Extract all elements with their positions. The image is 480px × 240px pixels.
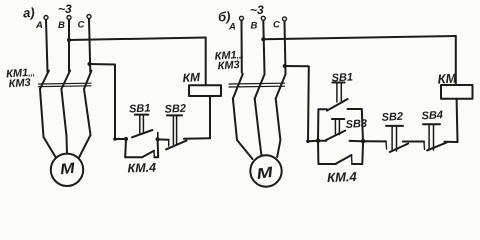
svg-text:КМ: КМ xyxy=(437,70,458,86)
svg-text:SB2: SB2 xyxy=(381,111,403,124)
terminal A (left) xyxy=(44,16,48,20)
terminal B (left) xyxy=(67,16,71,20)
wire phase B vertical (left) xyxy=(68,20,70,72)
terminal C (left) xyxy=(87,15,91,19)
svg-text:М: М xyxy=(256,164,275,183)
pushbutton SB2 (right) xyxy=(386,126,408,152)
wire node2 to SB2 (right) xyxy=(363,140,386,142)
svg-text:SB4: SB4 xyxy=(421,109,443,122)
terminal C (right) xyxy=(283,17,287,21)
contactor contact KM2 phase B (left) xyxy=(61,71,70,154)
junction control left corner (right) xyxy=(306,140,310,144)
wire bottom to node 1 (right) xyxy=(308,140,318,143)
junction control left corner (left) xyxy=(113,137,117,141)
wire phase A vertical (right) xyxy=(241,21,243,73)
contactor contact KM1 phase A (right) xyxy=(233,74,253,159)
pushbutton SB1 (left) xyxy=(132,115,158,139)
svg-text:SB1: SB1 xyxy=(331,71,353,84)
node SB1 right xyxy=(156,137,160,141)
coil KM (left) xyxy=(189,85,221,96)
wire coil KM bottom lead (left) xyxy=(209,97,211,138)
svg-text:SB1: SB1 xyxy=(129,102,151,115)
contactor contact KM2 phase B (right) xyxy=(255,74,265,156)
svg-text:~3: ~3 xyxy=(58,2,72,16)
linkage bar KM1-KM3 (right) xyxy=(229,83,285,87)
contactor contact KM3 phase C (right) xyxy=(276,74,286,157)
junction C (left) xyxy=(88,62,92,66)
svg-text:КМ3: КМ3 xyxy=(8,77,31,91)
contactor contact KM3 phase C (left) xyxy=(79,71,92,159)
node 2 (right) xyxy=(361,139,365,143)
svg-text:М: М xyxy=(59,160,76,178)
pushbutton SB1 branch (right) xyxy=(318,83,363,142)
svg-text:КМ: КМ xyxy=(182,70,201,85)
wire SB1 to SB2 (left) xyxy=(158,138,169,140)
wire coil KM bottom lead (right) xyxy=(456,99,459,142)
svg-text:C: C xyxy=(273,20,280,31)
wire coil KM top lead (right) xyxy=(455,36,457,85)
wire top B to coil KM (right) xyxy=(263,36,456,39)
svg-text:A: A xyxy=(228,22,236,33)
wire bottom to SB1 (left) xyxy=(115,138,126,140)
wire phase C vertical (left) xyxy=(89,19,90,72)
pushbutton SB2 (left) xyxy=(166,115,187,149)
svg-text:а): а) xyxy=(23,5,36,21)
svg-text:B: B xyxy=(58,20,65,31)
coil KM (right) xyxy=(441,85,473,99)
svg-text:B: B xyxy=(251,21,258,32)
svg-text:КМ.4: КМ.4 xyxy=(327,169,358,185)
junction B (right) xyxy=(261,37,265,41)
wire phase C vertical (right) xyxy=(285,21,286,73)
motor M (right) xyxy=(250,155,281,186)
wire SB2 to SB4 (right) xyxy=(403,141,424,143)
pushbutton SB3 (right) xyxy=(318,119,363,141)
node 1 (right) xyxy=(316,139,320,143)
svg-text:КМ3: КМ3 xyxy=(217,59,240,73)
svg-text:A: A xyxy=(35,20,43,31)
svg-text:SB2: SB2 xyxy=(164,103,186,116)
junction B (left) xyxy=(67,38,71,42)
pushbutton SB4 (right) xyxy=(423,124,447,150)
wire SB2 to coil (left) xyxy=(184,137,210,140)
contactor contact KM1 phase A (left) xyxy=(40,71,55,157)
svg-text:SB3: SB3 xyxy=(345,118,367,131)
wire C branch to control circuit (right) xyxy=(285,66,309,141)
terminal B (right) xyxy=(261,16,265,20)
junction C (right) xyxy=(283,64,287,68)
wire coil KM top lead (left) xyxy=(205,38,207,86)
svg-text:КМ.4: КМ.4 xyxy=(127,161,156,176)
aux contact KM.4 (left) xyxy=(125,139,158,157)
wire phase B vertical (right) xyxy=(263,21,264,73)
svg-text:C: C xyxy=(78,20,85,31)
wire SB4 to coil (right) xyxy=(445,141,458,143)
wire top B to coil KM (left) xyxy=(69,38,206,41)
wire C branch to control circuit (left) xyxy=(90,64,116,139)
aux contact KM.4 (right) xyxy=(318,141,363,164)
motor M (left) xyxy=(51,154,83,186)
terminal A (right) xyxy=(240,16,244,20)
linkage bar KM1-KM3 (left) xyxy=(39,83,92,86)
wire phase A vertical (left) xyxy=(46,20,48,72)
svg-text:~3: ~3 xyxy=(250,3,264,17)
node SB1 left xyxy=(124,137,128,141)
